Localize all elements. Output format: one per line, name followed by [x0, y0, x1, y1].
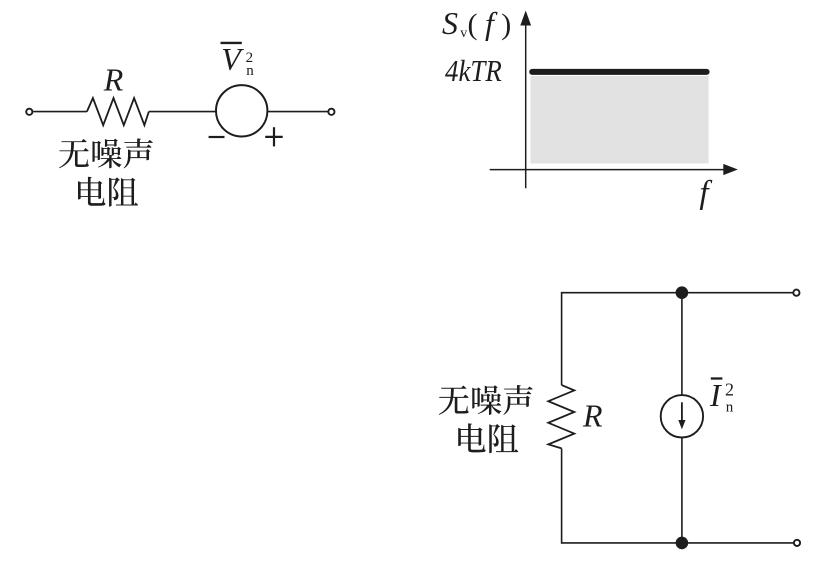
resistor R (noiseless resistor, shunt): [548, 385, 574, 448]
svg-text:2: 2: [725, 380, 734, 400]
svg-text:v: v: [460, 26, 467, 41]
spectral density level line at 4kTR: [532, 69, 706, 75]
label dian (resistor) char1 top-left: [78, 177, 105, 206]
terminal T1 (top-left circuit, left port): [26, 109, 32, 115]
x-axis of spectral density plot: [490, 169, 725, 171]
current source arrow (downward): [681, 402, 683, 421]
wire from current source In to bottom node: [681, 437, 683, 543]
shaded white-noise spectrum area: [531, 76, 709, 164]
wire from top node to current source In: [681, 293, 683, 396]
label wu (noiseless) char1 top-left: [59, 139, 89, 168]
y-axis of spectral density plot: [525, 24, 527, 188]
label zao (noiseless) char2 bottom-right: [472, 385, 501, 415]
polarity plus sign of Vn: [265, 127, 283, 146]
label wu (noiseless) char1 bottom-right: [439, 386, 469, 415]
label sheng (noiseless) char3 top-left: [124, 138, 153, 168]
wire from resistor R to voltage source Vn: [149, 111, 216, 113]
svg-text:f: f: [485, 5, 498, 41]
voltage source Vn (noise voltage source circle): [216, 85, 267, 136]
svg-text:(: (: [468, 8, 478, 41]
label dian (resistor) char1 bottom-right: [458, 423, 485, 452]
label Sv(f) (y-axis title): [442, 5, 511, 41]
terminal T4 (bottom-right circuit, bottom port): [794, 540, 800, 546]
current source In (noise current source circle): [661, 395, 703, 437]
label zao (noiseless) char2 top-left: [92, 139, 121, 169]
terminal T3 (bottom-right circuit, top port): [793, 290, 799, 296]
resistor R (noiseless resistor, series): [87, 98, 149, 125]
polarity minus sign of Vn: [209, 136, 225, 138]
svg-text:R: R: [103, 62, 124, 98]
label zu (resistor) char2 top-left: [109, 177, 138, 206]
y-axis arrowhead: [520, 11, 531, 26]
left branch lower wire (from resistor R): [561, 448, 563, 543]
svg-text:S: S: [442, 5, 458, 41]
left branch upper wire (to resistor R): [561, 292, 563, 385]
bottom wire of parallel circuit: [562, 542, 794, 544]
label sheng (noiseless) char3 bottom-right: [503, 385, 532, 415]
junction node dot (bottom): [676, 537, 689, 550]
x-axis arrowhead: [723, 164, 738, 175]
svg-text:V: V: [221, 41, 244, 77]
svg-text:): ): [501, 8, 511, 41]
terminal T2 (top-left circuit, right port): [328, 109, 334, 115]
wire from T1 to resistor R (left lead): [33, 111, 87, 113]
label zu (resistor) char2 bottom-right: [489, 424, 518, 453]
label Vn^2 (mean-square noise voltage): [221, 41, 255, 79]
label In^2 (mean-square noise current): [709, 377, 734, 416]
svg-text:4kTR: 4kTR: [445, 53, 502, 88]
svg-text:n: n: [726, 400, 734, 416]
junction node dot (top): [676, 286, 689, 299]
top wire of parallel circuit: [562, 292, 793, 294]
svg-text:I: I: [709, 377, 722, 413]
svg-text:f: f: [699, 175, 712, 211]
svg-text:R: R: [582, 398, 603, 434]
wire from voltage source Vn to right terminal: [267, 111, 327, 113]
svg-text:n: n: [246, 63, 254, 79]
